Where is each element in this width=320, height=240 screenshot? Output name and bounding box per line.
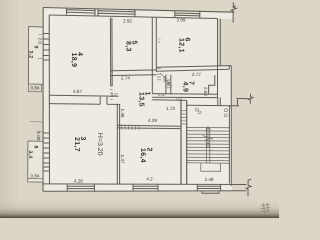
outer wall top (outer line) [43,8,234,13]
bottom-right break symbol [246,179,251,196]
wall room6 bottom / stairwell top niche [218,66,230,70]
svg-text:1.47: 1.47 [120,155,125,164]
half-landing box [201,163,221,171]
corridor|room2 wall [118,125,182,128]
bottom window band (room 2) [133,184,158,191]
interior paper (lighter) [43,7,234,191]
stairwell top wall [187,104,232,107]
svg-text:2.0: 2.0 [38,38,43,45]
stair up arrow [206,127,210,147]
svg-text:4.2: 4.2 [146,177,153,182]
dimension line 0.84 in balcony 8 [28,178,43,180]
room3 top wall [49,95,119,104]
door hatch room 4 [110,86,113,100]
wall room5|room6 [152,17,156,72]
svg-text:0.84: 0.84 [31,86,40,91]
left wall outer line [42,8,44,192]
svg-text:4.39: 4.39 [148,118,157,123]
corridor bottom-right wall (to entry) [152,99,187,102]
stairwell right wall [229,66,231,186]
outer wall top (inner line) [49,15,217,19]
stair stringer [206,128,209,163]
bottom wall bottom line [43,190,246,193]
door hatch room 6 [157,68,161,80]
porch below stairwell window [202,191,219,193]
bottom shadow strip [0,199,279,218]
svg-text:1.00: 1.00 [36,132,41,141]
svg-text:0,93: 0,93 [167,79,171,85]
wc left wall [151,70,153,94]
left wall inner line [48,15,50,184]
left wall window hatch (top balcony door) [43,34,49,61]
bottom-right corner mark [261,203,270,214]
wc door ticks [165,84,171,88]
room6 door leaf diagonal [161,73,173,86]
landing line [187,162,229,164]
corridor top wall (below rooms 5,6) [110,66,231,76]
pencil smudge on flight [203,136,214,142]
wall room3|room2 [117,104,119,184]
bath vent notch [209,75,215,94]
bath bottom wall [152,94,217,98]
wall room4|room5 [110,18,112,86]
door swing marks left [195,108,198,111]
entry door hatch [181,111,187,124]
top window band 1 (room 4) [67,8,96,15]
svg-text:0,90: 0,90 [158,93,165,97]
svg-text:1.73: 1.73 [166,106,175,111]
balcony 8 (bottom-left) [28,141,43,182]
svg-text:2.92: 2.92 [123,18,132,23]
top window band 2 (room 5) [98,9,135,17]
stair treads [187,128,229,161]
dimension box 0.84 under balcony 9 [28,84,41,92]
door hatch room 2 [122,124,140,130]
bottom window band (stairwell) [197,185,220,191]
dimension extension ticks (left wall) [30,35,43,132]
balcony 9 (top-left) [28,27,43,85]
svg-text:4.26: 4.26 [74,179,83,184]
left margin shading [0,0,20,218]
top-right break symbol [231,3,236,23]
svg-text:1.48: 1.48 [120,109,125,118]
left wall window hatch (bottom balcony door) [43,133,49,171]
paper background [0,0,279,218]
svg-text:2.62: 2.62 [203,87,208,96]
top window band 3 (room 6) [175,11,200,18]
svg-text:0,95: 0,95 [176,97,183,101]
wall wc|bath [166,75,171,95]
wall room2|stairwell [181,100,187,184]
svg-text:2.48: 2.48 [205,177,214,182]
svg-text:0.84: 0.84 [31,174,40,179]
svg-text:0.17: 0.17 [111,93,118,97]
bottom wall top line [43,183,246,186]
bottom window band (room 3) [67,184,94,191]
staircase [187,108,229,171]
svg-text:0,4: 0,4 [157,38,161,43]
svg-text:2.77: 2.77 [192,72,201,77]
svg-text:3.67: 3.67 [73,89,82,94]
arrow base circle [206,143,210,147]
svg-text:2.74: 2.74 [121,76,130,81]
svg-text:Н=3.20: Н=3.20 [96,133,103,156]
right outer wall (rooms 6,7) [218,19,221,106]
svg-text:3.89: 3.89 [177,18,186,23]
svg-text:0,90: 0,90 [163,76,167,82]
neighbour break top right of stairs [230,94,254,106]
door swing marks right [224,109,227,112]
